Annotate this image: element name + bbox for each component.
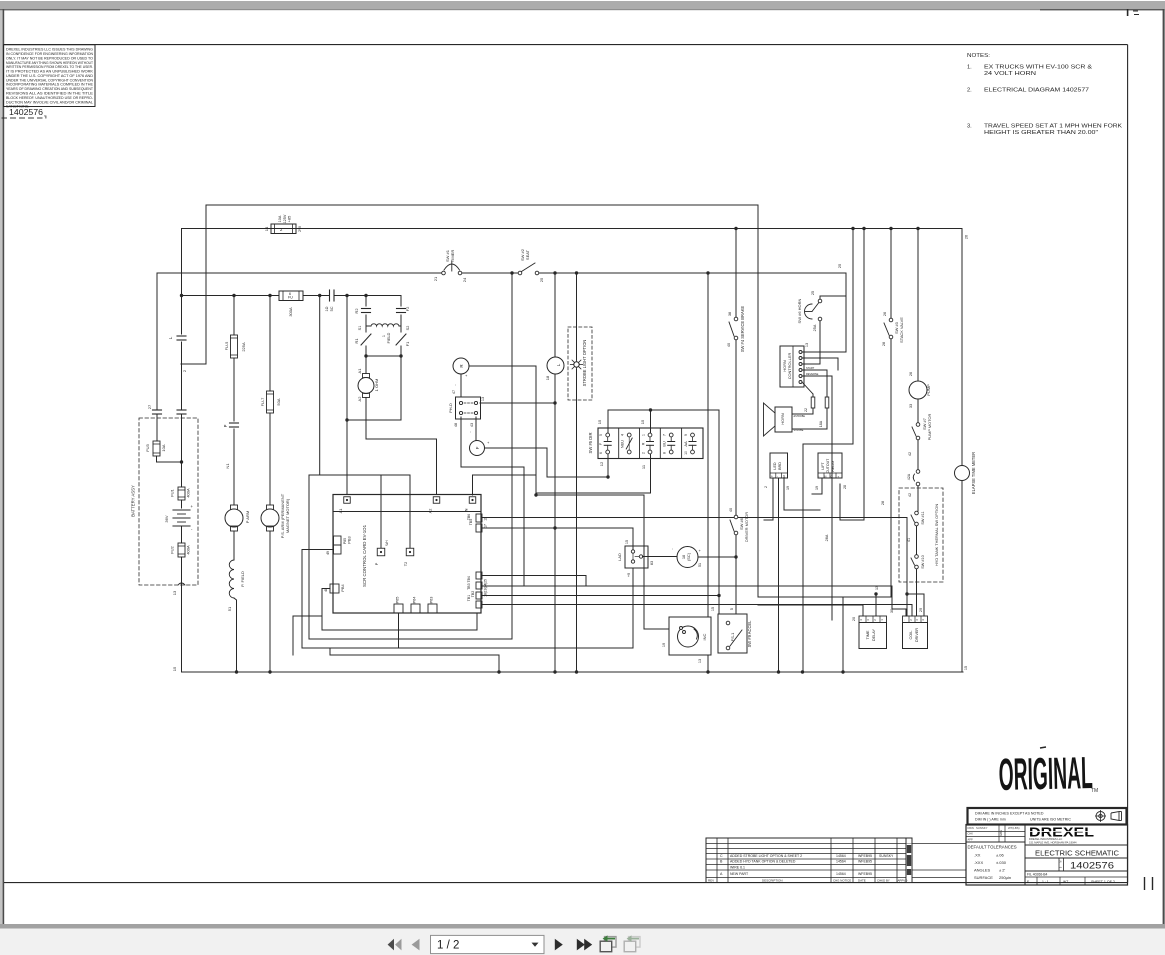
svg-text:125V: 125V — [283, 214, 287, 223]
svg-text:10: 10 — [684, 451, 688, 455]
svg-text:15: 15 — [711, 607, 715, 611]
copyright notice block — [4, 45, 96, 109]
svg-text:51: 51 — [698, 563, 702, 567]
drawing number 1402576 (top left) — [2, 107, 47, 118]
svg-text:P: P — [223, 424, 228, 427]
relay coil F — [470, 440, 491, 456]
SCR control card EV-101 — [333, 495, 481, 614]
svg-text:R1: R1 — [354, 338, 359, 344]
svg-text:1 OHM: 1 OHM — [374, 379, 379, 392]
wire SW5 feed (y=410) — [597, 408, 718, 433]
svg-text:BU: BU — [662, 441, 667, 447]
svg-text:SUNSKY: SUNSKY — [879, 854, 894, 858]
svg-text:SW #9 ACCEL: SW #9 ACCEL — [747, 620, 752, 648]
svg-text:ELECTRIC SCHEMATIC: ELECTRIC SCHEMATIC — [1035, 848, 1120, 857]
switch 42A interlock — [907, 470, 920, 511]
wire bus 2W (y=228) — [182, 228, 963, 230]
svg-text:15: 15 — [964, 666, 968, 670]
svg-text:83: 83 — [650, 561, 654, 565]
svg-text:40: 40 — [729, 508, 733, 512]
svg-text:MAGNET MOTOR): MAGNET MOTOR) — [285, 498, 290, 533]
svg-text:O: O — [831, 475, 833, 479]
svg-text:DESCRIPTION: DESCRIPTION — [762, 879, 783, 883]
wire R-branch vertical — [345, 294, 348, 494]
svg-text:14564: 14564 — [836, 854, 846, 858]
svg-text:28A: 28A — [825, 534, 829, 541]
svg-text:27: 27 — [147, 404, 152, 409]
wire F-branch loop to SCR A1 terminal — [347, 419, 401, 421]
svg-text:(SC): (SC) — [686, 552, 691, 561]
svg-text:DATE: DATE — [1000, 829, 1003, 836]
svg-text:42: 42 — [908, 493, 912, 497]
svg-text:FU1: FU1 — [170, 488, 175, 496]
wire LAD return loop — [302, 648, 633, 674]
svg-text:36V: 36V — [164, 515, 169, 522]
svg-text:15: 15 — [172, 666, 177, 671]
svg-text:2: 2 — [764, 486, 768, 488]
motor P ARM — [225, 505, 250, 560]
svg-text:WFEB95: WFEB95 — [858, 860, 872, 864]
motor PUMP — [909, 372, 931, 423]
svg-text:F2: F2 — [405, 306, 410, 311]
svg-text:ADDED STROBE LIGHT OPTION & SH: ADDED STROBE LIGHT OPTION & SHEET 2 — [730, 854, 802, 858]
svg-text:M: M — [1060, 861, 1063, 863]
svg-text:19: 19 — [815, 486, 819, 490]
svg-text:25: 25 — [837, 263, 842, 268]
svg-text:13: 13 — [698, 659, 702, 663]
svg-text:A1: A1 — [338, 509, 343, 514]
wire A2 loop to SCR A2 terminal — [366, 399, 437, 494]
svg-text:LIFT: LIFT — [821, 462, 825, 470]
svg-text:.XXX: .XXX — [974, 860, 983, 865]
svg-text:1: 1 — [642, 434, 646, 436]
svg-text:N1: N1 — [225, 463, 230, 469]
strobe light option dashed box — [568, 327, 592, 400]
svg-text:2.: 2. — [967, 88, 972, 94]
svg-text:P ARM: P ARM — [245, 511, 250, 523]
svg-text:4: 4 — [621, 434, 625, 436]
svg-text:FS-1: FS-1 — [730, 632, 735, 641]
wire bottom negative bus — [182, 671, 964, 673]
svg-text:DEFAULT TOLERANCES: DEFAULT TOLERANCES — [968, 845, 1017, 850]
svg-text:CHG NOTICE: CHG NOTICE — [833, 879, 851, 883]
svg-text:DWN: DWN — [968, 826, 974, 830]
svg-text:2W: 2W — [297, 226, 302, 232]
svg-text:18: 18 — [545, 375, 550, 380]
svg-text:20: 20 — [852, 617, 856, 621]
svg-text:FIL 40266-B4: FIL 40266-B4 — [1027, 873, 1048, 877]
wire card feed loop A — [318, 294, 410, 548]
wire lamp branch — [510, 271, 556, 673]
svg-text:-: - — [777, 475, 778, 479]
svg-text:TB3 TB4: TB3 TB4 — [467, 576, 471, 590]
terminal A1 — [338, 497, 350, 514]
svg-text:SW #5 DIR: SW #5 DIR — [588, 433, 593, 454]
svg-text:33: 33 — [909, 404, 913, 408]
wire TB5-17 to LAD — [482, 526, 633, 551]
svg-text:19: 19 — [786, 486, 790, 490]
svg-text:1Ω: 1Ω — [325, 306, 329, 311]
svg-text:DIM IN ( ) ARE mm: DIM IN ( ) ARE mm — [975, 818, 1006, 822]
lift cutout relay — [812, 453, 885, 505]
svg-text:18A: 18A — [819, 420, 823, 427]
wire accel branch x=708 — [706, 271, 709, 673]
svg-text:26: 26 — [965, 235, 969, 239]
svg-text:225A: 225A — [241, 342, 246, 352]
inductor P. FIELD — [227, 560, 245, 674]
svg-text:10A: 10A — [161, 444, 166, 451]
terminal PB3 — [326, 536, 352, 555]
switch SW #4 SERVICE BRAKE — [727, 306, 745, 353]
svg-text:FU-5: FU-5 — [224, 342, 229, 351]
switch SW #5 DIR (direction switch block) — [588, 428, 703, 469]
svg-text:P85: P85 — [343, 538, 347, 544]
revision table — [706, 838, 966, 883]
contact R1 (with arc chute) — [354, 326, 371, 345]
notes text block — [967, 53, 1122, 136]
svg-text:START: START — [806, 366, 815, 370]
lamp L (18) — [545, 357, 564, 380]
svg-text:DRIVER: DRIVER — [915, 628, 919, 643]
wire elapse-time-meter branch — [962, 229, 969, 466]
svg-text:42: 42 — [908, 452, 912, 456]
svg-text:P65: P65 — [396, 597, 400, 604]
svg-text:FIELD: FIELD — [387, 332, 391, 343]
svg-text:14564: 14564 — [836, 872, 846, 876]
svg-text:9: 9 — [684, 434, 688, 436]
svg-text:-: - — [903, 619, 907, 620]
contact tip F2 — [397, 296, 411, 333]
svg-text:A2: A2 — [357, 396, 362, 402]
svg-text:6: 6 — [289, 292, 291, 296]
svg-text:R: R — [641, 442, 646, 445]
svg-text:14: 14 — [264, 226, 269, 231]
svg-text:400A: 400A — [186, 488, 191, 498]
wire card lower-left stub — [293, 616, 322, 655]
toolbar: previous page button — [412, 939, 420, 951]
wire loop into time delay — [758, 586, 879, 674]
svg-text:WT: WT — [1063, 880, 1068, 884]
svg-text:STROBE LIGHT OPTION: STROBE LIGHT OPTION — [582, 340, 587, 387]
svg-text:21: 21 — [433, 276, 438, 281]
switch SW #11 — [907, 511, 925, 555]
fuse FU4 1A on 2W bus — [264, 214, 302, 233]
terminals P65 P64 P63 — [394, 597, 437, 613]
wire key line drop to battery — [156, 273, 158, 409]
svg-text:SURFACE: SURFACE — [974, 875, 993, 880]
svg-text:C: C — [720, 854, 723, 858]
svg-text:14564: 14564 — [836, 860, 846, 864]
svg-text:19: 19 — [662, 643, 666, 647]
svg-text:HEIGHT IS GREATER THAN 20.00": HEIGHT IS GREATER THAN 20.00" — [984, 130, 1098, 136]
wire coil driver node 15 — [905, 592, 924, 616]
switch SW #2 SEAT — [518, 248, 544, 282]
terminal TB5 (11/17) — [467, 514, 488, 532]
svg-text:F1: F1 — [405, 341, 410, 346]
toolbar: page-copy icon with green arrow — [600, 935, 616, 951]
svg-text:WT(LBS): WT(LBS) — [1008, 826, 1020, 830]
title ELECTRIC SCHEMATIC — [1035, 848, 1120, 857]
wire F relay to SW5 (node 12) — [485, 448, 609, 477]
svg-text:8: 8 — [663, 452, 667, 454]
svg-text:UNITS ARE ISO METRIC: UNITS ARE ISO METRIC — [1030, 818, 1071, 822]
svg-text:APP: APP — [968, 837, 973, 841]
svg-text:TIME: TIME — [866, 630, 870, 640]
horn (speaker) — [764, 403, 806, 436]
wire top loop from node 2 — [181, 205, 758, 364]
svg-text:18|19|24|25: 18|19|24|25 — [484, 579, 488, 597]
svg-text:FU3: FU3 — [145, 443, 150, 451]
svg-text:SW #10: SW #10 — [921, 555, 925, 569]
svg-text:1.: 1. — [967, 65, 972, 71]
wire top loop drop x=758 — [757, 205, 759, 597]
svg-text:+9: +9 — [627, 573, 631, 577]
svg-text:SEAT: SEAT — [525, 249, 530, 260]
wire FS-1 feed — [719, 410, 736, 614]
capacitor at battery top right — [177, 410, 186, 487]
svg-text:-: - — [819, 475, 820, 479]
svg-text:HYD TANK THERMAL SW OPTION: HYD TANK THERMAL SW OPTION — [934, 504, 939, 566]
strobe lamp symbol — [570, 271, 582, 673]
svg-text:7: 7 — [663, 434, 667, 436]
fuse FU2 400A — [170, 543, 191, 585]
time delay module — [852, 616, 887, 649]
svg-text:10A: 10A — [278, 215, 282, 222]
wire P-arm branch — [232, 294, 235, 505]
svg-text:26: 26 — [883, 312, 887, 316]
svg-text:BRD: BRD — [778, 462, 782, 470]
capacitor P — [223, 423, 239, 469]
LED board — [764, 453, 820, 674]
svg-text:1 : 1: 1 : 1 — [1042, 880, 1049, 884]
wire key-switch line (y=273) — [157, 272, 846, 274]
svg-text:13: 13 — [481, 397, 485, 401]
svg-text:± 2': ± 2' — [999, 868, 1006, 873]
svg-text:50A: 50A — [276, 398, 281, 405]
connector LAD — [617, 546, 654, 577]
wire A-branch vertical — [364, 294, 367, 399]
wire pump branch — [916, 227, 919, 381]
svg-text:15: 15 — [625, 540, 629, 544]
terminals TB1 TB2 TB4 (18/19/24/25) — [467, 572, 488, 608]
svg-text:HORN: HORN — [780, 413, 785, 425]
svg-text:1402576: 1402576 — [1070, 860, 1114, 870]
svg-text:FU-7: FU-7 — [260, 398, 265, 407]
svg-text:P64: P64 — [413, 597, 417, 604]
switch SW #10 — [911, 555, 925, 616]
contact tip R2 — [354, 308, 371, 314]
toolbar: page number combobox 1 / 2 — [431, 935, 545, 953]
svg-text:22: 22 — [804, 408, 808, 412]
capacitor 27 (battery top left) — [147, 404, 162, 441]
DREXEL logo — [1029, 825, 1094, 845]
svg-text:3.: 3. — [967, 123, 972, 129]
svg-text:N: N — [464, 508, 469, 511]
motor A1 1 OHM (armature) — [357, 368, 379, 402]
motor 18 (SC) steer motor — [669, 547, 702, 568]
svg-text:151 MAPLE AVE, HORSHAM PA 1904: 151 MAPLE AVE, HORSHAM PA 19044 — [1029, 841, 1077, 845]
svg-text:24 VOLT HORN: 24 VOLT HORN — [984, 71, 1036, 77]
svg-text:15: 15 — [640, 419, 645, 424]
svg-text:CONTROLLER: CONTROLLER — [787, 353, 792, 380]
wire card loop 2 — [309, 430, 512, 639]
wire TB run 25 to coil driver — [482, 605, 912, 617]
fuse FU3 10A — [145, 441, 183, 464]
fuse FU-5 225A — [224, 335, 246, 358]
svg-text:FU2: FU2 — [170, 545, 175, 553]
horn controller — [780, 343, 819, 387]
wire from F contact down — [606, 454, 609, 479]
contact F1 — [396, 326, 410, 356]
svg-text:ELECTRICAL DIAGRAM 1402577: ELECTRICAL DIAGRAM 1402577 — [984, 88, 1089, 94]
coil driver module — [903, 616, 928, 649]
svg-text:STROBE: STROBE — [794, 429, 804, 432]
svg-text:28: 28 — [843, 485, 847, 489]
switch SW #1 TIMER — [433, 249, 467, 282]
switch SW #6 HORN (button) — [797, 291, 846, 364]
svg-text:24: 24 — [462, 277, 467, 282]
svg-text:1: 1 — [382, 335, 386, 337]
svg-text:&STROBE: &STROBE — [794, 415, 806, 418]
svg-text:SUNSKY: SUNSKY — [976, 826, 988, 830]
svg-text:SCR CONTROL CARD EV-1O1: SCR CONTROL CARD EV-1O1 — [362, 524, 367, 587]
svg-text:15: 15 — [597, 419, 602, 424]
svg-text:49: 49 — [326, 551, 330, 555]
motor P.S. ARM (permanent magnet motor) — [261, 493, 290, 673]
wire PH-D pin2 to lamp node — [480, 402, 555, 404]
connector PH-D — [448, 397, 485, 427]
svg-text:12: 12 — [599, 461, 604, 466]
svg-text:13: 13 — [875, 586, 879, 590]
svg-text:REVERSE: REVERSE — [806, 372, 819, 376]
wire P65 drop — [398, 613, 400, 648]
svg-text:P. FIELD: P. FIELD — [240, 571, 245, 587]
battery 36V cells — [164, 504, 194, 543]
toolbar: last page button — [577, 939, 592, 951]
svg-text:STACK VALVE: STACK VALVE — [899, 317, 904, 343]
svg-text:P: P — [375, 562, 379, 565]
svg-text:A1: A1 — [357, 368, 362, 374]
svg-text:5: 5 — [599, 434, 603, 436]
svg-text:P63: P63 — [430, 597, 434, 604]
wire PH-D pin4 to relay F — [467, 417, 476, 440]
terminal T2 (card internal) — [404, 548, 414, 566]
wire N-R crossrun — [473, 475, 670, 629]
wire TB5-11 run — [482, 518, 907, 595]
switch SW #8 DRIVER MOTOR — [729, 508, 749, 542]
svg-text:5C: 5C — [330, 306, 334, 311]
svg-text:42A: 42A — [907, 473, 911, 480]
wire TB run 19 (long to coil driver loop) — [482, 586, 906, 616]
svg-text:1402576: 1402576 — [9, 107, 43, 117]
terminal A2 — [428, 497, 440, 514]
relay coil R — [453, 358, 469, 378]
wire R to vertical — [469, 366, 538, 497]
svg-text:WH: WH — [385, 540, 389, 546]
third angle projection symbols — [1095, 810, 1122, 822]
svg-text:13: 13 — [172, 590, 177, 595]
svg-text:SW #4 SERVICE BRAKE: SW #4 SERVICE BRAKE — [740, 306, 745, 353]
resistor 22 — [792, 397, 815, 414]
inductor 1 FIELD (bridge) — [366, 324, 401, 344]
wire PB3 loop — [302, 550, 334, 649]
svg-text:CHK: CHK — [968, 832, 974, 836]
svg-text:NOTES:: NOTES: — [967, 53, 990, 59]
svg-text:TB2: TB2 — [471, 591, 475, 597]
fuse FU1 400A — [170, 487, 191, 508]
svg-text:S1: S1 — [358, 326, 362, 331]
wire node 2 / capacitor L branch — [168, 229, 187, 411]
wire TB run 24 — [482, 594, 721, 597]
wire PH-D pin3 loop — [461, 417, 524, 586]
ORIGINAL stamp — [998, 747, 1098, 800]
fuse FU 6 300A — [279, 291, 303, 317]
svg-text:APPVD: APPVD — [898, 879, 908, 883]
svg-text:28: 28 — [882, 342, 886, 346]
svg-text:±.06: ±.06 — [996, 853, 1005, 858]
svg-text:CHKD BY: CHKD BY — [877, 879, 890, 883]
terminal N — [464, 497, 476, 512]
svg-text:REV: REV — [708, 879, 714, 883]
svg-text:51: 51 — [227, 606, 232, 611]
svg-text:A2: A2 — [428, 509, 433, 514]
svg-text:NEW PART: NEW PART — [730, 872, 749, 876]
svg-text:41: 41 — [907, 538, 911, 542]
toolbar: next page button — [555, 939, 563, 951]
svg-text:.XX: .XX — [974, 853, 981, 858]
svg-text:2: 2 — [642, 452, 646, 454]
resistor 18A — [792, 397, 829, 429]
battery assembly dashed enclosure — [131, 418, 199, 585]
svg-text:DATE: DATE — [858, 879, 866, 883]
svg-text:T2: T2 — [404, 562, 408, 566]
svg-text:COIL: COIL — [909, 631, 913, 640]
svg-text:BATTERY ASSY: BATTERY ASSY — [131, 485, 136, 517]
switch SW #3 STACK VALVE — [876, 227, 904, 597]
svg-text:28: 28 — [881, 501, 885, 505]
svg-text:ANGLES: ANGLES — [974, 868, 991, 873]
svg-text:1 / 2: 1 / 2 — [437, 940, 459, 952]
svg-text:F: F — [475, 446, 480, 449]
svg-text:13: 13 — [805, 343, 809, 347]
svg-text:PUMP: PUMP — [926, 384, 931, 396]
svg-text:PB4: PB4 — [341, 584, 345, 591]
wire from R contact down — [536, 454, 651, 493]
svg-text:N: N — [825, 475, 827, 479]
svg-text:25: 25 — [811, 291, 815, 295]
svg-text:SW #11: SW #11 — [921, 511, 925, 524]
svg-text:38: 38 — [728, 312, 732, 316]
svg-text:30: 30 — [890, 609, 894, 613]
svg-text:WFEB95: WFEB95 — [858, 872, 872, 876]
terminal PB4 — [324, 584, 345, 593]
wire PB4 loop under card — [322, 589, 477, 631]
fuse FU-7 50A — [260, 391, 281, 413]
svg-text:RELAY: RELAY — [831, 460, 835, 472]
wire LAD to SC — [643, 556, 678, 558]
drawing number cell 1402576 — [1059, 858, 1114, 871]
svg-text:250µin: 250µin — [999, 875, 1011, 880]
svg-text:25: 25 — [539, 277, 544, 282]
svg-text:5: 5 — [730, 608, 734, 610]
wire horn controller pin wires — [802, 352, 846, 620]
toolbar: page-copy icon (disabled) — [624, 935, 640, 951]
svg-text:R2: R2 — [354, 308, 359, 314]
svg-text:26: 26 — [909, 372, 913, 376]
svg-text:TM: TM — [1091, 788, 1098, 794]
toolbar: first page button — [388, 939, 402, 951]
svg-text:47: 47 — [452, 390, 456, 394]
